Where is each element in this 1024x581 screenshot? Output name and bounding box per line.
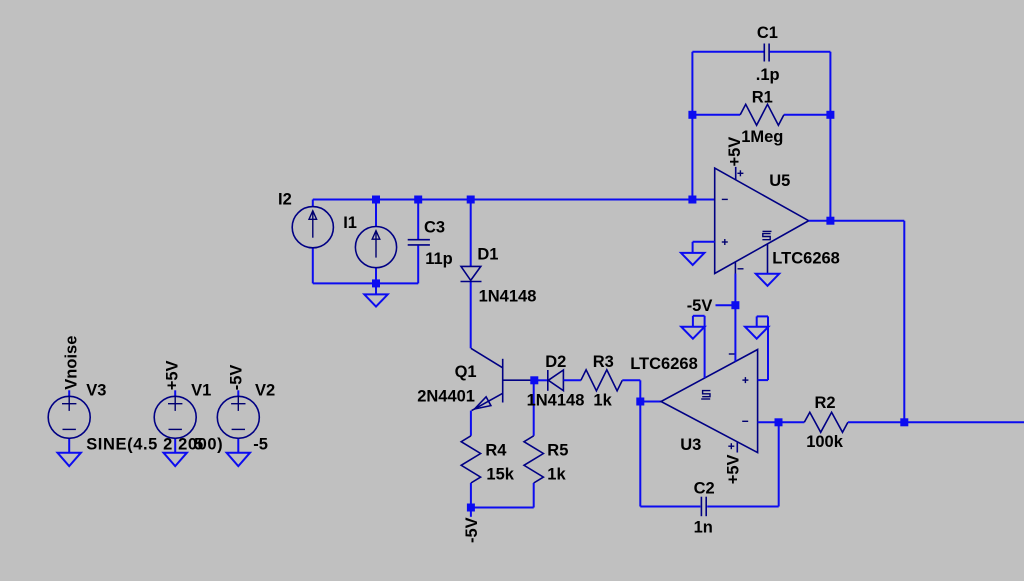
node junction R1 left: [688, 111, 696, 119]
svg-text:1n: 1n: [694, 518, 713, 536]
svg-text:11p: 11p: [425, 250, 453, 268]
ground V1: [164, 453, 187, 466]
svg-text:1N4148: 1N4148: [527, 391, 585, 409]
svg-text:LTC6268: LTC6268: [772, 250, 840, 268]
wire feedback right rail: [829, 52, 831, 221]
node junction U5 inverting input: [688, 196, 696, 204]
wire bottom of sources: [313, 282, 418, 284]
wire output to right edge: [904, 421, 1024, 423]
ground V3: [58, 453, 81, 466]
svg-text:C2: C2: [694, 480, 715, 498]
svg-text:100k: 100k: [806, 433, 844, 451]
wire R2 right lead: [848, 421, 904, 423]
svg-text:15k: 15k: [486, 465, 514, 483]
node junction I1 top: [372, 196, 380, 204]
svg-text:+5V: +5V: [164, 360, 182, 390]
ground U5 enable: [756, 274, 779, 286]
node junction Q1 base: [530, 376, 538, 384]
wire U5 V- down: [734, 274, 736, 306]
wire U5 output: [809, 220, 905, 222]
resistor R3 1k: [581, 353, 622, 409]
node junction U3 output: [636, 398, 644, 406]
wire feedback top row right: [770, 51, 831, 53]
wire -5V label stub: [716, 304, 736, 306]
capacitor C1: [756, 24, 780, 84]
wire U3 noninv hook: [757, 316, 768, 380]
wire U3 inv input stub: [758, 421, 779, 423]
node junction output net: [900, 418, 908, 426]
wire -5V to U3 V-: [734, 305, 736, 361]
voltage source V2 -5V: [217, 382, 275, 454]
wire U3 enable hook: [693, 316, 705, 378]
svg-text:R5: R5: [547, 441, 568, 459]
node junction U3 inv: [775, 418, 783, 426]
svg-text:.1p: .1p: [756, 66, 780, 84]
wire R1 right lead: [784, 114, 831, 116]
op-amp U3 LTC6268: [630, 350, 757, 454]
capacitor C3 11p: [408, 200, 453, 284]
voltage source V3 Vnoise: [48, 382, 223, 454]
svg-text:+5V: +5V: [726, 137, 744, 167]
node junction -5V: [731, 301, 739, 309]
ground V2: [227, 453, 250, 466]
svg-text:D2: D2: [545, 353, 566, 371]
svg-text:5: 5: [194, 436, 203, 454]
svg-text:R4: R4: [485, 441, 507, 459]
resistor R4 15k: [461, 436, 515, 484]
voltage source V1 +5V: [154, 382, 211, 454]
wire R3 to U3: [622, 379, 640, 381]
capacitor C2 1n: [694, 480, 715, 537]
svg-text:R3: R3: [593, 353, 614, 371]
svg-text:Q1: Q1: [455, 363, 477, 381]
wire bottom tie R4-R5: [471, 507, 534, 509]
resistor R1 1Meg: [740, 89, 784, 147]
svg-text:1k: 1k: [593, 391, 612, 409]
svg-text:+5V: +5V: [724, 454, 742, 484]
svg-text:-5V: -5V: [687, 297, 713, 315]
wire R4 bottom lead: [470, 483, 472, 508]
svg-text:1Meg: 1Meg: [741, 128, 783, 146]
node junction sources bottom: [372, 279, 380, 287]
svg-text:R2: R2: [815, 394, 836, 412]
wire R2 left lead: [779, 421, 805, 423]
current source I2: [278, 191, 333, 284]
wire C2 left riser: [640, 402, 700, 507]
wire R1 left lead: [692, 114, 740, 116]
svg-text:C1: C1: [757, 24, 778, 42]
svg-text:1k: 1k: [547, 465, 566, 483]
svg-text:1N4148: 1N4148: [479, 288, 537, 306]
ground U5 noninv: [681, 253, 704, 265]
node junction U5 output: [826, 217, 834, 225]
wire emitter to R4: [470, 411, 472, 436]
wire U5 noninv to ground: [693, 242, 715, 253]
node junction D1 top: [467, 196, 475, 204]
wire main input net: [313, 199, 715, 201]
resistor R2 100k: [804, 394, 848, 451]
svg-text:D1: D1: [477, 246, 498, 264]
wire feedback left rail: [691, 52, 693, 200]
svg-text:I1: I1: [343, 214, 357, 232]
node junction R4 bottom: [467, 504, 475, 512]
svg-text:I2: I2: [278, 191, 292, 209]
current source I1: [343, 200, 396, 284]
wire down to U3 output: [639, 380, 641, 401]
wire C2 right riser: [707, 422, 779, 506]
svg-text:Vnoise: Vnoise: [63, 336, 81, 390]
wire stub to -5V label: [470, 508, 472, 517]
svg-text:LTC6268: LTC6268: [630, 355, 698, 373]
svg-text:C3: C3: [424, 218, 445, 236]
wire to U3 output tip: [640, 401, 661, 403]
svg-text:V1: V1: [191, 382, 211, 400]
diode D1 1N4148: [461, 200, 537, 349]
wire output right rail down: [903, 221, 905, 423]
svg-text:U3: U3: [680, 436, 701, 454]
svg-text:-5V: -5V: [463, 517, 481, 543]
wire feedback top row left: [692, 51, 763, 53]
ground U3 noninv: [745, 327, 768, 339]
diode D2 1N4148: [527, 353, 585, 409]
op-amp U5 LTC6268: [715, 167, 840, 274]
node junction C3 top: [414, 196, 422, 204]
ground below I1: [364, 283, 387, 306]
svg-text:V3: V3: [86, 382, 106, 400]
svg-text:V2: V2: [255, 382, 275, 400]
svg-text:R1: R1: [752, 89, 773, 107]
svg-text:U5: U5: [769, 172, 790, 190]
node junction R1 right: [826, 111, 834, 119]
svg-text:-5V: -5V: [228, 365, 246, 391]
svg-text:2N4401: 2N4401: [417, 388, 475, 406]
svg-text:-5: -5: [253, 436, 268, 454]
resistor R5 1k: [524, 380, 568, 507]
transistor Q1 2N4401: [417, 348, 534, 410]
ground U3 enable: [681, 327, 704, 339]
